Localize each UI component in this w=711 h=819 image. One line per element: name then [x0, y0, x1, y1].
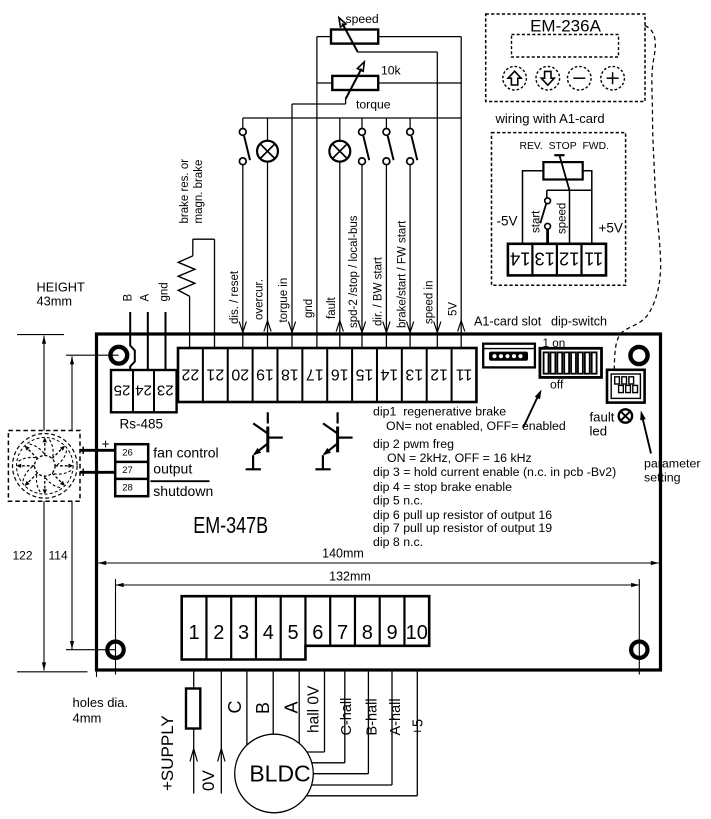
- arrow out of terminal 16 (fault): [336, 321, 340, 332]
- arrow into terminal 18 (torgue in): [288, 322, 292, 333]
- module EM-236A (dashed): [486, 14, 645, 102]
- svg-text:0V: 0V: [199, 770, 218, 791]
- wire C phase (terminal 3): [246, 672, 248, 746]
- svg-text:+5V: +5V: [599, 221, 623, 236]
- svg-text:25: 25: [114, 382, 131, 399]
- svg-text:dip 4 = stop brake enable: dip 4 = stop brake enable: [373, 480, 512, 494]
- wire B-hall (terminal 8): [313, 672, 368, 774]
- wire stub to start switch: [546, 190, 548, 198]
- wire torque wiper run: [345, 99, 347, 104]
- dimension extension line to bottom-left hole: [66, 649, 116, 651]
- terminal numbers 26 27 28: [122, 448, 133, 494]
- svg-text:dip 7 pull up resistor of outp: dip 7 pull up resistor of output 19: [373, 521, 552, 535]
- arrow to dip-switch: [523, 390, 542, 429]
- wire hall 0V (terminal 6): [307, 672, 325, 753]
- terminal strip X2 terminals 22-11: [178, 348, 476, 402]
- svg-text:dis. / reset: dis. / reset: [229, 270, 241, 324]
- svg-text:43mm: 43mm: [37, 294, 73, 309]
- svg-text:ON = 2kHz, OFF = 16 kHz: ON = 2kHz, OFF = 16 kHz: [387, 451, 532, 465]
- svg-text:1: 1: [189, 622, 200, 644]
- svg-text:11: 11: [584, 249, 603, 270]
- svg-text:11: 11: [456, 366, 473, 383]
- terminal block Rs-485 (25,24,23): [111, 370, 177, 412]
- svg-text:speed: speed: [346, 12, 379, 26]
- svg-text:shutdown: shutdown: [153, 483, 213, 499]
- svg-text:brake res. or: brake res. or: [179, 159, 191, 224]
- wire fan - to terminal 27: [80, 471, 115, 474]
- svg-text:B-hall: B-hall: [365, 698, 381, 735]
- arrow into terminal 15 (spd-2): [358, 322, 362, 333]
- svg-text:8: 8: [362, 622, 373, 644]
- arrow out of terminal 19 (overcur.): [264, 321, 268, 332]
- box wiring with A1-card (dashed): [492, 133, 626, 286]
- wire speed wiper to speed-in: [358, 51, 438, 53]
- svg-text:140mm: 140mm: [322, 547, 364, 561]
- svg-text:HEIGHT: HEIGHT: [37, 280, 86, 295]
- svg-text:B: B: [253, 702, 273, 714]
- svg-text:torgue in: torgue in: [278, 278, 290, 323]
- transistor Q2 (open-collector output 16): [315, 412, 352, 469]
- svg-text:13: 13: [405, 366, 423, 383]
- svg-text:torque: torque: [356, 98, 391, 112]
- dimension extension line to top-left hole: [66, 354, 119, 356]
- svg-text:C-hall: C-hall: [339, 698, 355, 736]
- svg-text:dip 6 pull up resistor of outp: dip 6 pull up resistor of output 16: [373, 508, 552, 522]
- arrow into terminal 13 (brake/start): [407, 322, 411, 333]
- svg-text:gnd: gnd: [159, 282, 171, 301]
- svg-text:led: led: [590, 424, 608, 439]
- lamp fault indicator and wire to terminal 16: [329, 118, 350, 348]
- svg-text:122: 122: [13, 549, 33, 563]
- connector parameter setting: [607, 370, 645, 403]
- svg-text:Rs-485: Rs-485: [120, 417, 164, 432]
- EM-236A buttons (up,down,minus,plus): [503, 66, 625, 90]
- resistor brake res. (across terminals 22-21): [178, 239, 214, 348]
- wire start switch top to +5V: [547, 189, 592, 191]
- svg-text:dip 2 pwm freg: dip 2 pwm freg: [373, 437, 454, 451]
- dimension line 122 (board height): [42, 336, 46, 671]
- fault led (circle-X): [619, 409, 632, 422]
- svg-text:15: 15: [356, 366, 374, 383]
- svg-text:REV. STOP FWD.: REV. STOP FWD.: [520, 141, 610, 152]
- A1 terminal numbers (rotated 180): [510, 249, 603, 270]
- potentiometer A1 speed pot: [543, 155, 582, 190]
- svg-text:A: A: [140, 294, 152, 302]
- svg-text:dip 3 = hold current enable (n: dip 3 = hold current enable (n.c. in pcb…: [373, 465, 616, 479]
- svg-text:+: +: [102, 436, 110, 452]
- svg-text:magn. brake: magn. brake: [193, 160, 205, 224]
- dimension extension line through bottom-right hole: [638, 579, 640, 675]
- mounting hole bottom-right: [631, 642, 647, 658]
- transistor Q1 (open-collector output 19): [246, 412, 283, 469]
- svg-text:overcur.: overcur.: [254, 279, 266, 320]
- wire speed-in vertical: [436, 52, 438, 348]
- svg-text:off: off: [550, 377, 564, 391]
- potentiometer R-speed: [331, 18, 378, 52]
- svg-text:20: 20: [231, 366, 249, 383]
- svg-text:B: B: [123, 294, 135, 302]
- svg-text:gnd: gnd: [303, 299, 315, 318]
- wire speed pot left to gnd rail: [317, 36, 331, 38]
- dimension line 132mm (hole pitch): [116, 583, 640, 587]
- potentiometer R-torque 10k: [332, 62, 378, 99]
- svg-text:fault: fault: [326, 296, 338, 319]
- dashed cable EM-236A to parameter setting connector: [614, 26, 660, 369]
- dip-switch (8 position): [540, 348, 602, 377]
- svg-text:fan control: fan control: [153, 445, 218, 461]
- mounting hole bottom-left: [107, 642, 123, 658]
- terminal numbers 1-10: [189, 622, 428, 644]
- wire C-hall (terminal 7): [312, 672, 345, 763]
- wire -5V to terminal 14: [523, 171, 544, 244]
- arrow into terminal 20 (dis./reset): [239, 322, 243, 333]
- svg-text:114: 114: [49, 549, 68, 563]
- connector A1-card slot: [483, 344, 535, 368]
- svg-text:28: 28: [122, 483, 133, 494]
- svg-text:2: 2: [213, 622, 224, 644]
- board outline EM-347B pcb: [97, 334, 661, 670]
- svg-text:14: 14: [380, 366, 398, 383]
- wire A phase (terminal 5): [298, 672, 300, 744]
- wire 5V rail vertical: [460, 37, 462, 348]
- wire A to terminal 24: [147, 312, 149, 370]
- wire 10k pot left to gnd rail: [317, 82, 332, 84]
- svg-text:12: 12: [430, 366, 448, 383]
- svg-text:hall 0V: hall 0V: [305, 685, 322, 733]
- svg-text:brake/start / FW start: brake/start / FW start: [396, 220, 408, 328]
- svg-text:holes dia.: holes dia.: [73, 695, 129, 710]
- svg-text:5V: 5V: [447, 302, 459, 316]
- wire gnd to terminal 23: [165, 312, 167, 370]
- switch S1 dis./reset and wire to terminal 20: [239, 118, 250, 348]
- wire 10k pot right to 5V rail: [378, 82, 461, 84]
- svg-text:fault: fault: [590, 410, 615, 425]
- wire B to terminal 25: [130, 312, 135, 370]
- fan (dashed outline, cooling fan symbol): [8, 431, 80, 502]
- dimension extension tick below left board corner: [96, 670, 98, 677]
- svg-text:EM-347B: EM-347B: [193, 512, 268, 538]
- svg-text:+SUPPLY: +SUPPLY: [158, 715, 177, 791]
- wire +5V to terminal 11: [583, 171, 592, 244]
- wire +5 (terminal 10): [306, 672, 417, 796]
- svg-text:dir. / BW start: dir. / BW start: [373, 256, 385, 326]
- svg-text:1 on: 1 on: [543, 337, 566, 350]
- motor BLDC: [235, 734, 314, 813]
- wire 5V bus to switches: [243, 117, 461, 119]
- arrow into terminal 14 (dir.): [383, 322, 387, 333]
- svg-text:4mm: 4mm: [73, 711, 102, 726]
- fan wire tick 1: [82, 447, 84, 454]
- svg-text:dip1 regenerative brake: dip1 regenerative brake: [373, 404, 506, 418]
- terminal strip X1 terminals 1-10: [182, 596, 430, 659]
- EM-236A display window: [512, 35, 619, 58]
- svg-text:10: 10: [406, 622, 428, 644]
- svg-text:14: 14: [510, 249, 531, 270]
- svg-text:BLDC: BLDC: [249, 761, 310, 787]
- svg-text:-5V: -5V: [497, 214, 518, 229]
- svg-text:7: 7: [337, 622, 348, 644]
- svg-text:dip 5 n.c.: dip 5 n.c.: [373, 494, 423, 508]
- dimension extension line board-bottom level: [17, 671, 88, 673]
- terminal numbers 22-11 (rotated 180): [181, 366, 472, 383]
- svg-text:21: 21: [206, 366, 224, 383]
- Rs-485 terminal numbers (rotated 180): [114, 382, 174, 399]
- wire gnd rail vertical (pot left side): [316, 37, 318, 348]
- overline of shutdown: [151, 480, 210, 482]
- svg-text:4: 4: [263, 622, 274, 644]
- wire start switch to terminal 13: [546, 229, 549, 244]
- svg-text:speed: speed: [557, 203, 569, 234]
- mounting hole top-left: [110, 347, 127, 364]
- svg-text:parameter: parameter: [644, 457, 700, 471]
- svg-text:dip 8 n.c.: dip 8 n.c.: [373, 535, 423, 549]
- mounting hole top-right: [630, 347, 647, 364]
- svg-text:start: start: [531, 210, 543, 233]
- svg-text:6: 6: [312, 622, 323, 644]
- svg-text:3: 3: [238, 622, 249, 644]
- wire 0V (terminal 2): [218, 672, 225, 794]
- svg-text:ON= not enabled, OFF= enabled: ON= not enabled, OFF= enabled: [386, 419, 566, 433]
- svg-text:spd-2 /stop / local-bus: spd-2 /stop / local-bus: [348, 215, 360, 328]
- svg-text:speed in: speed in: [424, 281, 436, 324]
- terminal block A1 terminals 14-11: [508, 244, 606, 276]
- svg-text:132mm: 132mm: [329, 570, 371, 584]
- wire A-hall (terminal 9): [312, 672, 392, 786]
- dip switch function legend text: [373, 404, 616, 549]
- svg-text:19: 19: [256, 366, 274, 383]
- svg-text:wiring with A1-card: wiring with A1-card: [495, 111, 605, 126]
- wire fan + to terminal 26: [80, 449, 115, 452]
- fan wire tick 2: [82, 469, 84, 476]
- svg-text:output: output: [153, 461, 192, 477]
- svg-text:5: 5: [288, 622, 299, 644]
- dimension extension line through bottom-left hole: [115, 579, 117, 675]
- svg-text:17: 17: [306, 366, 324, 383]
- svg-text:12: 12: [559, 249, 580, 270]
- svg-text:26: 26: [122, 448, 133, 459]
- dimension extension line board-top level: [17, 334, 64, 336]
- svg-text:13: 13: [534, 249, 555, 270]
- switch S2 spd-2/stop/local-bus and wire to terminal 15: [359, 118, 370, 348]
- svg-text:22: 22: [181, 366, 199, 383]
- svg-text:24: 24: [135, 382, 152, 399]
- wire B phase (terminal 4): [272, 672, 274, 735]
- arrow into terminal 12 (speed in): [434, 322, 438, 333]
- wire speed wiper to terminal 12: [569, 190, 571, 244]
- svg-text:18: 18: [281, 366, 299, 383]
- svg-text:16: 16: [331, 366, 349, 383]
- svg-text:C: C: [225, 701, 245, 714]
- svg-text:EM-236A: EM-236A: [530, 17, 602, 36]
- arrow to parameter connector: [640, 411, 651, 454]
- svg-text:A: A: [282, 701, 302, 713]
- svg-text:dip-switch: dip-switch: [551, 314, 607, 328]
- lamp overcur. indicator and wire to terminal 19: [257, 118, 278, 348]
- switch S4 brake/start/FW start and wire to terminal 13: [407, 118, 418, 348]
- terminal block fan control 26-28: [115, 444, 148, 496]
- svg-text:10k: 10k: [381, 64, 402, 78]
- svg-text:A1-card slot: A1-card slot: [474, 314, 542, 328]
- switch start: [540, 198, 550, 229]
- arrow out of terminal 11 (5V): [458, 321, 462, 332]
- switch S3 dir./BW start and wire to terminal 14: [383, 118, 394, 348]
- wire speed pot right to 5V rail: [378, 36, 461, 38]
- svg-text:A-hall: A-hall: [388, 698, 404, 735]
- svg-text:23: 23: [157, 382, 174, 399]
- wire +SUPPLY (terminal 1) with fuse: [186, 672, 200, 794]
- dimension line 114 (hole pitch): [70, 356, 74, 649]
- svg-text:setting: setting: [644, 471, 681, 485]
- svg-text:+5: +5: [411, 719, 427, 736]
- labels of control terminals (rotated): [229, 215, 459, 328]
- svg-text:9: 9: [387, 622, 398, 644]
- dimension line 140mm (board width): [98, 561, 659, 565]
- svg-text:27: 27: [122, 465, 133, 476]
